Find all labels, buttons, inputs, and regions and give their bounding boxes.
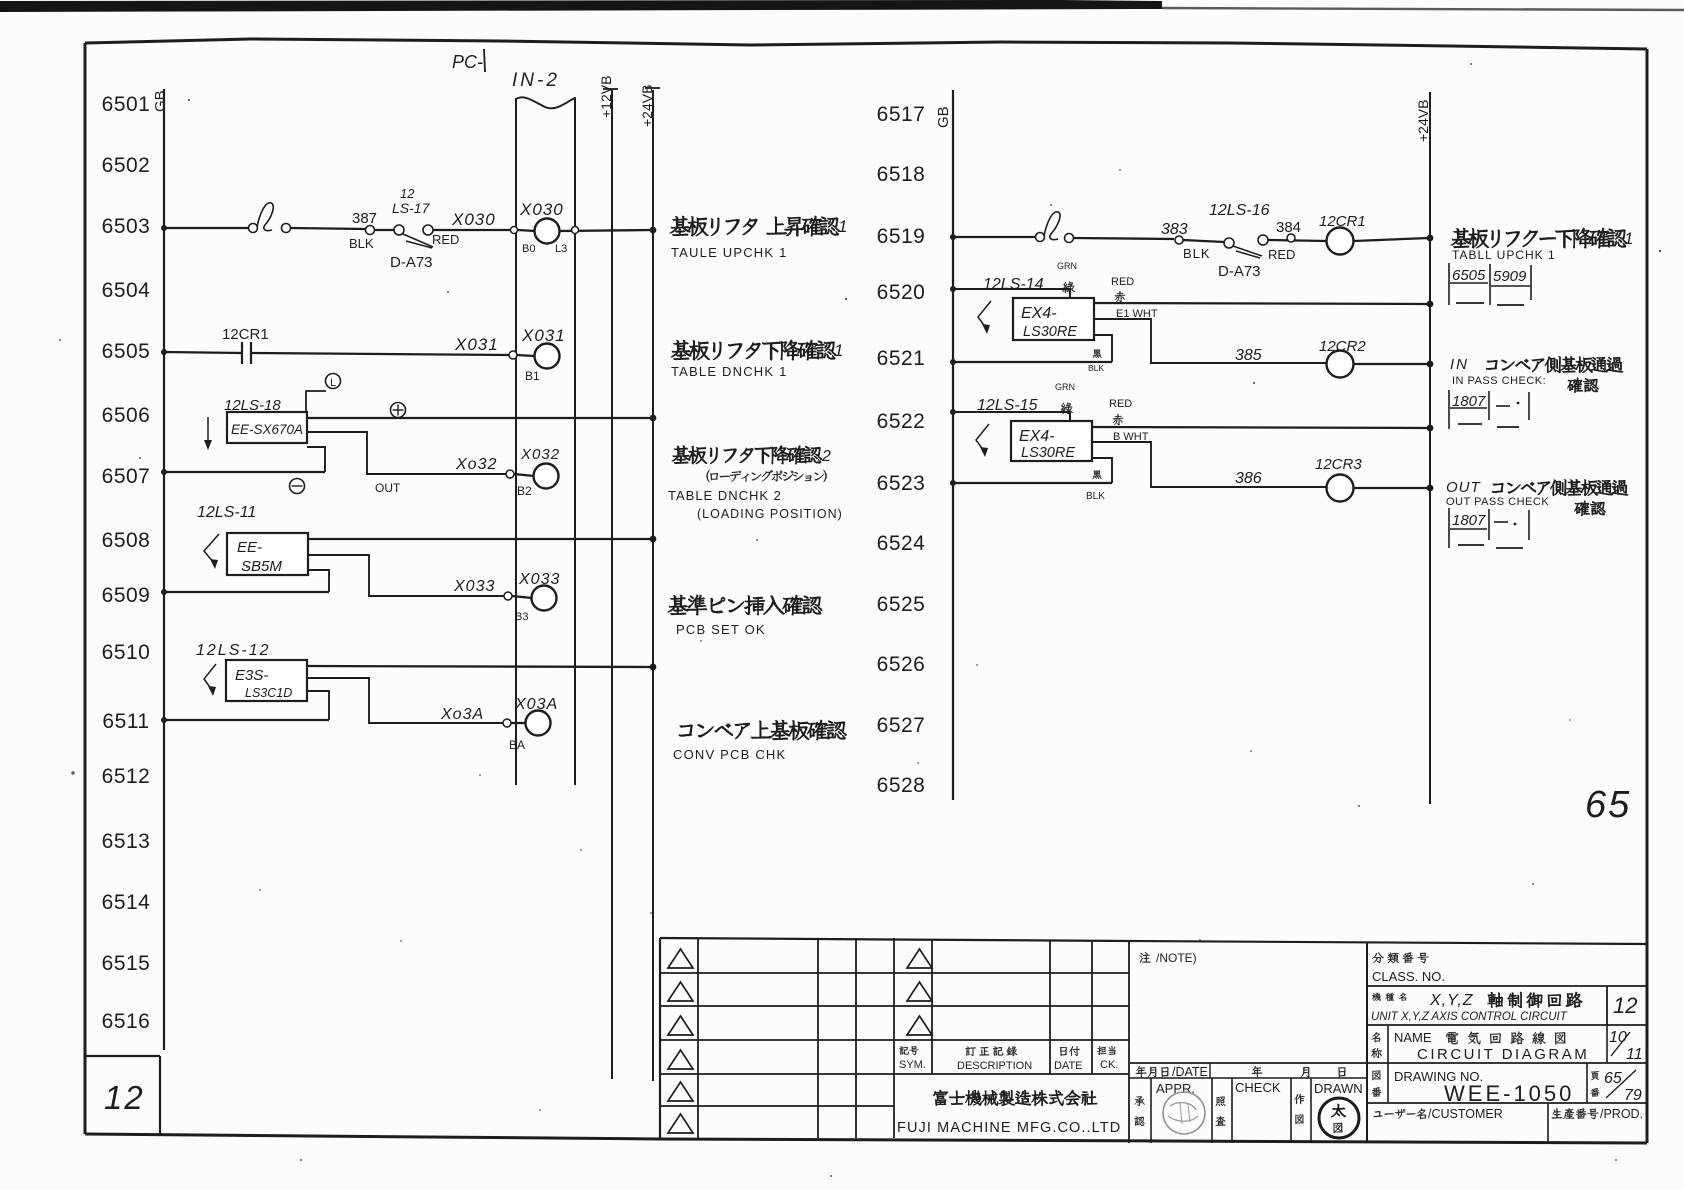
input coil X030	[535, 219, 560, 244]
relay coil 12CR1	[1327, 228, 1354, 255]
svg-text:BLK: BLK	[1086, 491, 1105, 502]
svg-text:CK.: CK.	[1100, 1059, 1118, 1071]
svg-text:65: 65	[1604, 1070, 1622, 1087]
svg-text:BA: BA	[509, 738, 525, 752]
svg-text:65: 65	[1585, 784, 1631, 826]
sensor EX4-LS30RE #1	[1013, 298, 1094, 340]
svg-text:B3: B3	[515, 611, 528, 623]
sensor - wire to rung 6507	[307, 447, 325, 472]
svg-text:387: 387	[352, 210, 377, 227]
svg-text:12LS-12: 12LS-12	[196, 642, 271, 659]
sensor EE-SB5M	[227, 533, 308, 575]
svg-text:D-A73: D-A73	[1218, 263, 1261, 280]
E1 WHT wire to relay 12CR2	[1094, 319, 1326, 363]
wire 387 to limit switch	[374, 229, 395, 231]
wire rung 6503 from bus	[164, 227, 249, 229]
svg-text:EX4-: EX4-	[1019, 428, 1055, 445]
wire terminal to coil X033	[512, 596, 532, 598]
BLK wire to rung 6523	[1092, 458, 1112, 483]
wire 12CR3 to +24VB	[1354, 487, 1429, 489]
junction on +24VB RED wire 2	[1427, 425, 1434, 432]
wire label X030	[433, 229, 512, 231]
svg-text:SYM.: SYM.	[899, 1059, 926, 1071]
check cell	[1216, 1097, 1226, 1106]
title block unit name cell	[1367, 985, 1647, 987]
svg-text:12LS-15: 12LS-15	[977, 397, 1038, 414]
wire rung 6509	[164, 591, 329, 593]
wire rung 6507	[164, 471, 325, 473]
svg-text:12: 12	[400, 186, 415, 201]
RED wire rung 6522 to +24VB	[1092, 427, 1429, 428]
+12VB power rail (left)	[611, 90, 613, 1079]
svg-text:1: 1	[1624, 229, 1633, 248]
svg-text:1807: 1807	[1452, 512, 1486, 529]
sensor OUT wire to X032	[307, 432, 506, 474]
wire rung 6519 from bus	[953, 236, 1035, 238]
svg-text:6516: 6516	[102, 1010, 151, 1033]
input coil X03A	[526, 711, 551, 736]
wire rung 6510 to +24VB	[307, 666, 652, 667]
annotation rung 6519: table down check 1	[1451, 228, 1627, 248]
annotation rung 6503: table up check 1	[670, 216, 840, 236]
wire rung 6522 GRN to sensor	[953, 412, 1070, 421]
svg-text:11: 11	[1626, 1046, 1643, 1063]
svg-text:OUT: OUT	[1446, 479, 1482, 496]
sensor arrow 12LS-14	[978, 301, 991, 328]
title block name cell: circuit diagram	[1367, 1024, 1647, 1026]
svg-text:6517: 6517	[877, 103, 926, 126]
svg-text:79: 79	[1624, 1087, 1642, 1104]
svg-text:X031: X031	[521, 326, 566, 345]
company name Fuji Machine	[933, 1090, 1097, 1106]
sensor low wire to rung 6509	[308, 570, 329, 592]
svg-text:NAME: NAME	[1394, 1030, 1432, 1045]
pin terminal BA	[503, 719, 511, 727]
svg-text:TABLE DNCHK 2: TABLE DNCHK 2	[668, 488, 782, 503]
svg-text:X03A: X03A	[514, 696, 558, 713]
svg-text:6528: 6528	[877, 774, 926, 797]
svg-text:IN PASS CHECK:: IN PASS CHECK:	[1452, 375, 1546, 387]
sensor out wire to X03A	[307, 678, 504, 723]
svg-text:12: 12	[1613, 993, 1637, 1018]
svg-text:X032: X032	[520, 446, 560, 463]
svg-text:GB: GB	[935, 106, 952, 128]
svg-text:GRN: GRN	[1057, 261, 1077, 271]
plug/receptacle symbol rung 6503	[249, 224, 258, 233]
input coil X033	[532, 586, 557, 611]
B WHT wire to relay 12CR3	[1092, 442, 1326, 487]
svg-text:6509: 6509	[102, 584, 151, 607]
svg-text:GB: GB	[152, 90, 169, 112]
svg-text:X030: X030	[451, 210, 496, 229]
+24VB power rail (right)	[1429, 92, 1431, 804]
svg-text:6513: 6513	[102, 830, 151, 853]
title block customer cell	[1367, 1102, 1647, 1104]
annotation rung 6511: conveyor pcb check	[679, 720, 846, 740]
wire to terminal 383	[1073, 238, 1174, 239]
svg-text:12CR1: 12CR1	[1319, 213, 1366, 230]
title block class number cell	[1366, 943, 1368, 1143]
svg-text:/DATE: /DATE	[1172, 1065, 1208, 1079]
junction on GB bus rung 6505	[161, 349, 167, 355]
input coil X032	[534, 464, 559, 489]
svg-text:6502: 6502	[102, 154, 151, 177]
terminal + on rung 6506	[391, 403, 406, 418]
svg-text:DRAWN: DRAWN	[1314, 1081, 1363, 1096]
svg-text:12LS-14: 12LS-14	[983, 276, 1044, 293]
svg-text:FUJI MACHINE MFG.CO..LTD: FUJI MACHINE MFG.CO..LTD	[897, 1120, 1121, 1136]
svg-text:X033: X033	[453, 578, 495, 595]
svg-text:6520: 6520	[877, 281, 926, 304]
svg-text:PCB SET OK: PCB SET OK	[676, 622, 766, 637]
svg-text:Xo32: Xo32	[455, 456, 497, 473]
BLK wire to rung 6521	[1094, 335, 1112, 362]
pin terminal B3	[504, 592, 512, 600]
svg-text:+12VB: +12VB	[598, 76, 614, 118]
svg-text:6524: 6524	[877, 532, 926, 555]
svg-text:6518: 6518	[877, 163, 926, 186]
junction on +24VB rung 6508	[650, 536, 657, 543]
svg-text:OUT PASS CHECK: OUT PASS CHECK	[1446, 496, 1549, 508]
svg-text:GRN: GRN	[1055, 382, 1075, 392]
svg-text:Xo3A: Xo3A	[440, 706, 484, 723]
wire coil to +24VB rung 6519	[1354, 238, 1429, 241]
svg-text:6527: 6527	[877, 714, 926, 737]
annotation rung 6507: table down check 2 (loading position)	[672, 446, 822, 464]
wire rung 6523	[953, 482, 1112, 484]
svg-text:IN-2: IN-2	[512, 70, 560, 91]
revision header DATE	[1060, 1046, 1080, 1056]
svg-text:6510: 6510	[102, 641, 151, 664]
svg-text:6501: 6501	[102, 93, 151, 116]
svg-text:LS30RE: LS30RE	[1023, 324, 1077, 340]
annotation rung 6505: table down check 1	[671, 340, 836, 360]
svg-text:RED: RED	[1111, 276, 1134, 288]
svg-text:X030: X030	[519, 200, 564, 219]
title block drawing number cell	[1367, 1062, 1647, 1064]
approval row grid	[1129, 1077, 1367, 1079]
svg-text:6506: 6506	[102, 404, 151, 427]
sensor out wire to X033	[308, 555, 504, 596]
left power bus GB	[163, 89, 165, 1050]
annotation rung 6509: pcb set ok	[668, 595, 822, 615]
sensor low wire to rung 6511	[307, 691, 329, 720]
svg-text:RED: RED	[432, 232, 459, 247]
svg-text:RED: RED	[1268, 247, 1295, 262]
svg-text:PC-: PC-	[452, 52, 483, 72]
sensor EE-SX670A	[227, 412, 307, 443]
scan artifact: top black bar	[0, 0, 1162, 12]
junction on GB bus rung 6509	[161, 589, 167, 595]
svg-text:TABLE DNCHK 1: TABLE DNCHK 1	[671, 364, 788, 379]
connector column IN-2	[515, 98, 517, 785]
junction on GB bus rung 6519	[950, 234, 956, 240]
svg-text:6521: 6521	[877, 347, 926, 370]
pin terminal L3 on IN-2 right	[560, 230, 651, 231]
revision table grid	[660, 938, 1647, 944]
svg-text:LS3C1D: LS3C1D	[245, 686, 292, 700]
svg-text:384: 384	[1276, 219, 1301, 236]
revision mark triangles (left column)	[668, 949, 693, 1133]
svg-text:EE-: EE-	[237, 539, 262, 556]
svg-text:6508: 6508	[102, 529, 151, 552]
right power bus GB	[952, 90, 954, 800]
svg-text:B2: B2	[517, 484, 532, 498]
rung numbers 6517-6528	[877, 103, 926, 797]
svg-text:D-A73: D-A73	[390, 254, 433, 271]
svg-text:6519: 6519	[877, 225, 926, 248]
wire 383 to limit switch	[1183, 240, 1224, 242]
svg-text:6511: 6511	[102, 710, 149, 733]
junction on GB bus rung 6503	[161, 225, 167, 231]
wire rung 6508 to +24VB	[308, 538, 652, 540]
svg-text:6514: 6514	[102, 891, 151, 914]
svg-text:6507: 6507	[102, 465, 151, 488]
svg-text:IN: IN	[1450, 356, 1469, 373]
pin terminal B1	[509, 351, 517, 359]
svg-text:BLK: BLK	[349, 236, 374, 251]
junction on GB bus rung 6521	[950, 359, 956, 365]
junction on +24VB RED wire	[1427, 301, 1434, 308]
sensor arrow 12LS-12	[204, 664, 216, 690]
svg-text:6523: 6523	[877, 472, 926, 495]
svg-text:12: 12	[104, 1079, 145, 1116]
svg-text:DESCRIPTION: DESCRIPTION	[957, 1060, 1032, 1072]
approval stamp (light)	[1163, 1092, 1205, 1134]
svg-text:X033: X033	[518, 571, 560, 588]
svg-text:CHECK: CHECK	[1235, 1080, 1281, 1095]
svg-text:6525: 6525	[877, 593, 926, 616]
junction on +24VB rung 6503	[650, 227, 657, 234]
svg-text:6504: 6504	[102, 279, 151, 302]
plug/receptacle symbol rung 6519	[1036, 233, 1045, 242]
terminal - symbol	[290, 479, 305, 494]
svg-text:EE-SX670A: EE-SX670A	[231, 422, 303, 437]
svg-text:E1 WHT: E1 WHT	[1116, 308, 1158, 320]
svg-text:RED: RED	[1109, 398, 1132, 410]
sensor EX4-LS30RE #2	[1011, 421, 1092, 461]
svg-text:CLASS. NO.: CLASS. NO.	[1372, 969, 1445, 984]
sensor pin L wire	[306, 391, 326, 412]
svg-text:+24VB: +24VB	[1415, 100, 1431, 142]
svg-text:X,Y,Z: X,Y,Z	[1429, 992, 1474, 1009]
svg-text:L3: L3	[555, 243, 567, 255]
svg-text:12LS-16: 12LS-16	[1209, 202, 1270, 219]
svg-text:EX4-: EX4-	[1021, 305, 1057, 322]
junction on GB bus rung 6507	[161, 469, 167, 475]
svg-text:(LOADING POSITION): (LOADING POSITION)	[697, 507, 843, 521]
svg-text:12LS-11: 12LS-11	[197, 504, 256, 521]
date header cell	[1129, 1062, 1367, 1064]
svg-text:B0: B0	[522, 243, 535, 255]
wire rung 6506 sensor + to +24VB	[307, 417, 652, 419]
drawn stamp (dark)	[1319, 1098, 1359, 1138]
svg-text:1: 1	[834, 341, 843, 360]
rung numbers 6501-6516	[102, 93, 151, 1033]
junction on GB bus rung 6522	[950, 409, 956, 415]
junction on +24VB rung 6523	[1427, 485, 1434, 492]
junction on +24VB rung 6519	[1427, 235, 1434, 242]
svg-text:LS-17: LS-17	[392, 200, 431, 216]
svg-text:BLK: BLK	[1088, 363, 1104, 373]
junction on GB bus rung 6520	[950, 286, 956, 292]
junction on +24VB rung 6510	[650, 664, 657, 671]
svg-text:BLK: BLK	[1183, 246, 1211, 261]
svg-text:5909: 5909	[1493, 268, 1527, 285]
svg-text:CONV PCB CHK: CONV PCB CHK	[673, 747, 786, 762]
svg-text:/CUSTOMER: /CUSTOMER	[1428, 1107, 1503, 1121]
svg-text:6515: 6515	[102, 952, 151, 975]
relay coil 12CR2	[1327, 351, 1354, 378]
wire rung 6511	[164, 719, 329, 721]
wire terminal to coil X03A	[511, 722, 526, 724]
junction on GB bus rung 6511	[161, 717, 167, 723]
revision header SYM	[899, 1046, 918, 1055]
svg-text:6505: 6505	[1452, 267, 1486, 284]
svg-text:X031: X031	[454, 335, 499, 354]
svg-text:6505: 6505	[102, 340, 151, 363]
svg-text:TABLL UPCHK 1: TABLL UPCHK 1	[1452, 248, 1556, 262]
svg-text:12CR3: 12CR3	[1315, 456, 1362, 473]
wire contact to X031	[251, 353, 511, 355]
sensor E3S-LS3C1D	[226, 660, 307, 701]
drawn cell	[1294, 1094, 1304, 1104]
terminal L	[326, 374, 341, 389]
relay coil 12CR3	[1327, 475, 1354, 502]
input coil X031	[535, 344, 560, 369]
revision mark triangles (second column)	[907, 949, 932, 1035]
svg-text:UNIT X,Y,Z AXIS CONTROL CIRCUI: UNIT X,Y,Z AXIS CONTROL CIRCUIT	[1371, 1011, 1568, 1023]
svg-text:E3S-: E3S-	[235, 667, 268, 684]
svg-text:385: 385	[1235, 347, 1262, 364]
cross-reference cells 6505/5909	[1448, 263, 1450, 305]
svg-text:DATE: DATE	[1054, 1060, 1083, 1072]
svg-text:10: 10	[1609, 1029, 1627, 1046]
pin terminal B0 on IN-2	[511, 227, 518, 234]
wire rung 6520 GRN to sensor	[953, 289, 1070, 298]
sensor arrow 12LS-15	[976, 424, 989, 451]
svg-text:6503: 6503	[102, 215, 151, 238]
sensor arrow (light beam)	[207, 417, 209, 442]
svg-text:/PROD.: /PROD.	[1600, 1107, 1643, 1121]
svg-text:B1: B1	[525, 369, 540, 383]
svg-text:6522: 6522	[877, 410, 926, 433]
svg-text:12CR1: 12CR1	[222, 326, 269, 343]
drawing frame border	[85, 39, 1647, 49]
RED wire rung 6520 to +24VB	[1094, 303, 1429, 304]
revision header CK	[1097, 1046, 1115, 1055]
junction on +24VB rung 6521	[1427, 361, 1434, 368]
svg-text:LS30RE: LS30RE	[1021, 445, 1075, 461]
wire to terminal 387	[290, 228, 366, 229]
svg-text:+24VB: +24VB	[639, 85, 655, 127]
svg-text:12CR2: 12CR2	[1319, 338, 1366, 355]
svg-text:2: 2	[821, 448, 831, 465]
svg-text:OUT: OUT	[375, 481, 401, 495]
svg-text:386: 386	[1235, 470, 1262, 487]
junction on +24VB rung 6506	[650, 415, 657, 422]
sensor arrow 12LS-11	[204, 534, 219, 563]
svg-text:/NOTE): /NOTE)	[1156, 951, 1197, 965]
revision header DESCRIPTION	[965, 1046, 1017, 1056]
svg-text:B WHT: B WHT	[1113, 431, 1149, 443]
svg-text:CIRCUIT DIAGRAM: CIRCUIT DIAGRAM	[1417, 1046, 1589, 1063]
svg-text:6512: 6512	[102, 765, 151, 788]
junction on GB bus rung 6523	[950, 480, 956, 486]
approval cell APPR	[1134, 1096, 1144, 1106]
svg-text:6526: 6526	[877, 653, 926, 676]
sheet number box 12	[85, 1055, 160, 1057]
svg-text:1: 1	[838, 217, 847, 236]
+24VB power rail (left)	[652, 90, 654, 1081]
svg-text:TAULE UPCHK 1: TAULE UPCHK 1	[671, 245, 788, 260]
svg-text:383: 383	[1161, 221, 1188, 238]
pin terminal B2	[506, 470, 514, 478]
wire rung 6521	[953, 361, 1112, 363]
wire rung 6505	[164, 352, 242, 353]
wire 12CR2 to +24VB	[1354, 363, 1429, 365]
svg-text:L: L	[330, 377, 336, 389]
